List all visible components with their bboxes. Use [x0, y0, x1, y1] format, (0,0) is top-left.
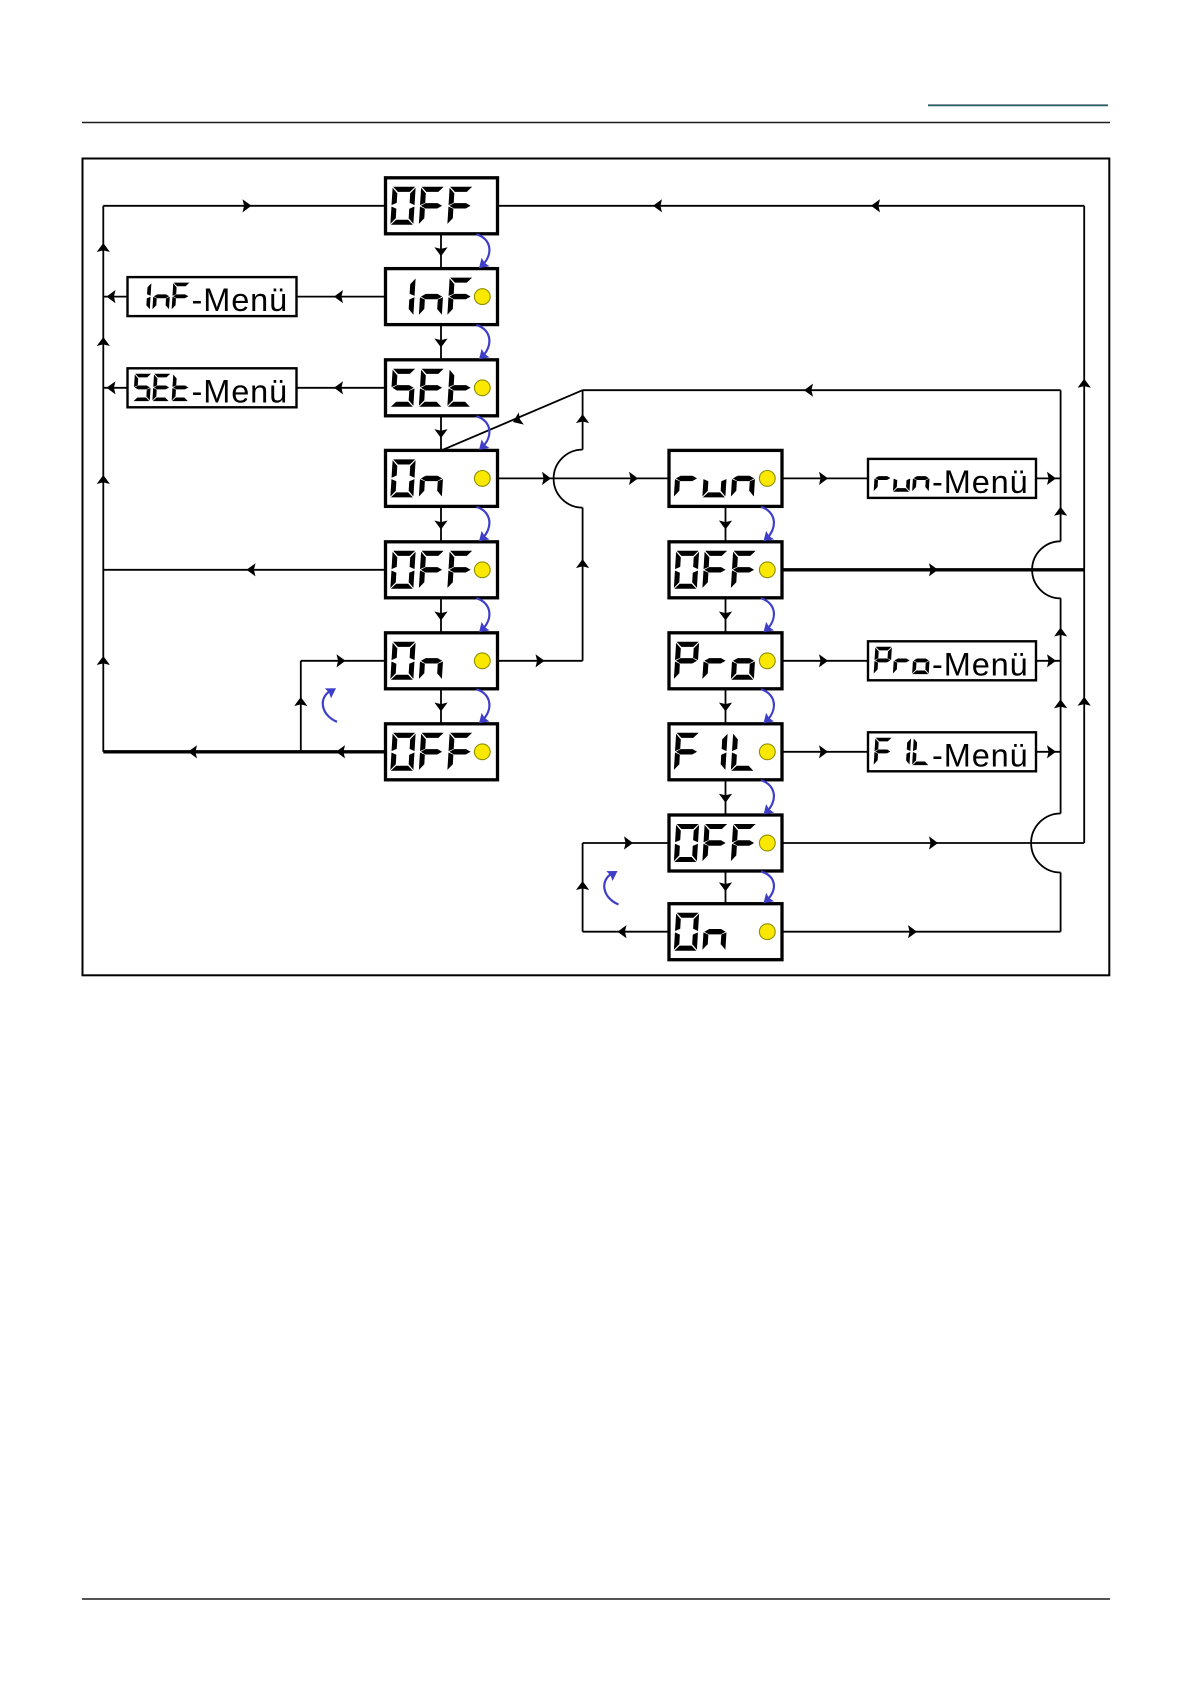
svg-text:-Menü: -Menü [932, 646, 1029, 682]
svg-text:-Menü: -Menü [932, 464, 1029, 500]
svg-text:-Menü: -Menü [932, 737, 1029, 773]
svg-text:-Menü: -Menü [192, 282, 289, 318]
svg-text:-Menü: -Menü [192, 373, 289, 409]
